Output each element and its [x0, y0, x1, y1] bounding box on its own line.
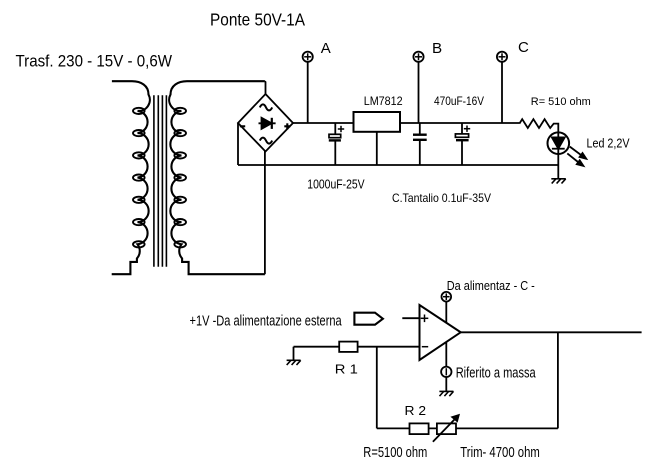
- svg-text:+1V -Da alimentazione esterna: +1V -Da alimentazione esterna: [190, 312, 343, 329]
- LED light arrows: [567, 147, 586, 166]
- svg-text:B: B: [432, 40, 442, 57]
- op-amp plus input mark: [421, 315, 429, 323]
- op-amp U2 body: [420, 305, 461, 360]
- transformer T1 primary winding: [112, 81, 150, 274]
- bridge rectifier B1 body: [238, 94, 293, 152]
- test point B circle: [413, 52, 423, 62]
- resistor R 510 zigzag: [519, 119, 558, 132]
- ground symbol top circuit: [551, 179, 566, 184]
- wire test point A: [307, 62, 309, 123]
- trimmer body: [437, 423, 456, 434]
- svg-text:Ponte 50V-1A: Ponte 50V-1A: [210, 10, 305, 30]
- svg-text:LM7812: LM7812: [364, 95, 403, 108]
- wire op-amp V+: [445, 302, 447, 326]
- test point V+ supply circle: [442, 292, 452, 302]
- ground symbol below reference circle: [439, 391, 453, 396]
- svg-text:470uF-16V: 470uF-16V: [434, 95, 484, 108]
- bridge AC mark bottom ~: [260, 138, 272, 144]
- op-amp minus input mark: [422, 346, 428, 348]
- capacitor C3 plates: [455, 134, 468, 140]
- capacitor C1 polarity plus: [338, 126, 344, 132]
- reference circle symbol: [441, 367, 451, 377]
- wire bridge minus down to ground rail: [237, 123, 239, 165]
- wire test point C: [501, 62, 503, 123]
- wire inverting input from ground through R1: [294, 346, 420, 348]
- svg-text:1000uF-25V: 1000uF-25V: [307, 177, 365, 192]
- wire feedback tap down: [376, 347, 378, 429]
- ground rail of top circuit: [238, 164, 558, 166]
- wire bridge bottom to secondary bottom: [264, 151, 266, 274]
- capacitor C3 polarity plus: [464, 126, 470, 132]
- wire feedback up to output: [557, 332, 559, 428]
- LED D2: [548, 132, 570, 178]
- transformer T1 primary crossover loops: [133, 108, 145, 248]
- transformer T1 secondary winding: [169, 81, 265, 274]
- test point A circle: [303, 52, 313, 62]
- svg-text:R=5100 ohm: R=5100 ohm: [363, 444, 427, 461]
- ground symbol at R1 input: [287, 360, 301, 365]
- capacitor C3 tantalum wires: [461, 123, 463, 134]
- svg-text:Trasf. 230 - 15V - 0,6W: Trasf. 230 - 15V - 0,6W: [16, 52, 173, 71]
- svg-text:R= 510 ohm: R= 510 ohm: [531, 96, 591, 108]
- wire op-amp output: [460, 331, 641, 333]
- resistor R2 body: [410, 423, 429, 434]
- svg-text:C.Tantalio 0.1uF-35V: C.Tantalio 0.1uF-35V: [392, 192, 491, 205]
- svg-text:C: C: [518, 39, 529, 56]
- capacitor C1 plates: [329, 134, 341, 140]
- main positive rail: [293, 122, 519, 124]
- capacitor C1 1000uF wires: [334, 123, 336, 135]
- wire non-inverting input stub: [402, 317, 419, 319]
- wire test point B: [418, 62, 420, 123]
- capacitor C2 plates: [413, 135, 427, 140]
- svg-text:R 2: R 2: [405, 403, 427, 418]
- bridge minus mark: [240, 125, 245, 127]
- svg-text:Riferito a massa: Riferito a massa: [456, 366, 536, 382]
- svg-text:Trim- 4700 ohm: Trim- 4700 ohm: [460, 444, 540, 461]
- wire secondary top corner into bridge top: [264, 81, 267, 94]
- test point C circle: [497, 52, 507, 62]
- wire regulator ground pin: [376, 132, 378, 165]
- svg-text:Da alimentaz - C -: Da alimentaz - C -: [447, 278, 535, 293]
- wire down to input ground: [293, 347, 295, 361]
- resistor R1 body: [339, 342, 357, 352]
- transformer T1 secondary crossover loops: [174, 108, 186, 248]
- bridge plus mark: [284, 123, 290, 129]
- wire op-amp to reference circle: [445, 340, 447, 367]
- wire reference circle to ground: [445, 377, 447, 391]
- capacitor C2 470uF wires: [419, 123, 421, 135]
- trimmer arrow: [433, 415, 459, 442]
- connector flag pentagon: [354, 313, 383, 325]
- wire feedback bottom run: [377, 427, 558, 429]
- bridge diode: [259, 118, 276, 129]
- svg-text:R 1: R 1: [335, 361, 358, 376]
- svg-text:Led 2,2V: Led 2,2V: [587, 136, 630, 151]
- regulator U1 LM7812 body: [354, 112, 401, 132]
- transformer T1 core: [154, 95, 167, 267]
- bridge AC mark top ~: [260, 104, 272, 110]
- svg-text:A: A: [321, 40, 331, 57]
